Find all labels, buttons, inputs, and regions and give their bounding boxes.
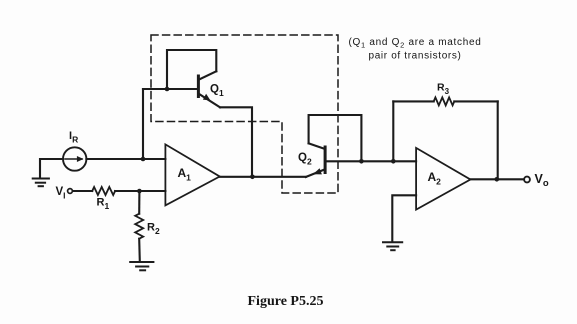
ground below R2 [130,262,153,270]
wire: Q2 collector-to-base loop [309,115,362,161]
wire: Q1 emitter down to A1 output node [220,107,252,177]
svg-text:R3: R3 [437,82,450,97]
svg-text:pair of transistors): pair of transistors) [369,50,462,61]
svg-text:Q1: Q1 [210,84,224,99]
resistor R2 [135,191,143,261]
op-amp A2 [416,148,470,210]
terminal VO [524,177,530,183]
current source IR [63,147,86,170]
svg-text:R2: R2 [147,222,160,237]
ground at A2 [383,242,402,250]
svg-text:Figure P5.25: Figure P5.25 [248,294,324,309]
wire: A1 output [220,176,306,178]
resistor R3 [393,97,497,105]
ground at current source IR [33,179,49,187]
node: Q1 base / collector loop junction [165,87,170,92]
wire: IR output to A1 noninverting input [86,158,165,160]
terminal VI [68,189,73,194]
node: Q2 collector loop / base junction [359,159,364,164]
wire: Q2 base to A2 input [325,160,416,162]
svg-text:A1: A1 [178,166,192,183]
wire: A2 noninverting input to ground [392,195,416,241]
node: A2 input / R3 junction [391,159,396,164]
resistor R1 [92,187,115,195]
svg-text:A2: A2 [428,170,442,187]
wire: Q1 base [143,88,198,90]
wire: R3 feedback left riser [392,101,394,161]
op-amp A1 [165,144,219,205]
wire: VI terminal to R1 [73,190,93,192]
wire: R1 to A1 inverting input [115,190,165,192]
wire: A2 output [470,178,523,180]
wire: Q1 collector-to-base loop [167,50,216,89]
wire: R3 feedback right riser to output [497,101,499,179]
transistor Q1 [198,71,220,107]
svg-text:Vo: Vo [535,172,549,189]
svg-text:R1: R1 [97,197,110,212]
wire: ground to current source IR [40,159,63,178]
wire: riser from junction up to Q1 base [142,89,144,159]
node: R1 / R2 junction [137,189,142,194]
transistor Q2 [306,143,325,177]
svg-text:(Q1 and Q2 are a matched: (Q1 and Q2 are a matched [349,37,482,50]
dashed box: matched transistor pair boundary [151,35,338,193]
svg-text:IR: IR [69,130,78,145]
svg-text:VI: VI [56,186,66,201]
node: IR wire / Q1 base riser junction [141,157,146,162]
svg-text:Q2: Q2 [298,152,312,167]
node: A1 output / Q1 emitter junction [250,175,255,180]
node: A2 output / R3 junction [495,177,500,182]
